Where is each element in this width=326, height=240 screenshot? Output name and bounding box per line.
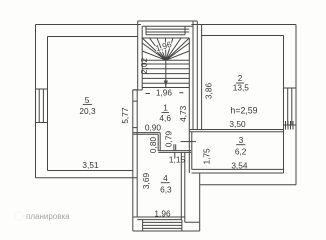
stair direction divider (165, 60, 167, 87)
closet top wall (133, 133, 160, 135)
wall hatch right of room3 (286, 121, 294, 130)
dimension dashes beside 1,96 (146, 92, 184, 95)
wall room5 bottom (36, 171, 138, 178)
svg-text:4: 4 (163, 173, 168, 183)
stair landing (142, 26, 193, 35)
svg-text:4,6: 4,6 (159, 113, 171, 123)
svg-text:0,80: 0,80 (148, 137, 158, 154)
svg-text:0,79: 0,79 (163, 131, 173, 148)
outer wall right room2 (284, 25, 297, 185)
svg-text:1,96: 1,96 (154, 209, 171, 219)
stair block top (138, 20, 198, 22)
stair steps (142, 64, 189, 83)
watermark (15, 212, 71, 222)
svg-text:5: 5 (85, 95, 90, 105)
wall room3 bottom (192, 169, 284, 173)
outer wall bottom right (200, 184, 296, 186)
closet right wall (158, 133, 160, 151)
svg-text:3,50: 3,50 (229, 119, 246, 129)
svg-text:1,96: 1,96 (156, 87, 173, 97)
wall room4 right (181, 152, 185, 222)
svg-text:13,5: 13,5 (233, 83, 250, 93)
door jamb room4 (174, 144, 176, 158)
porch steps (133, 220, 200, 231)
door ticks room5 wall (133, 90, 137, 128)
wall column left (133, 21, 142, 231)
window right (284, 88, 297, 125)
svg-text:1,15: 1,15 (169, 155, 186, 165)
svg-text:3,54: 3,54 (231, 161, 248, 171)
svg-text:h=2,59: h=2,59 (230, 106, 257, 116)
svg-text:6,3: 6,3 (160, 184, 172, 194)
wall room4 bottom (133, 217, 185, 220)
window left (36, 89, 48, 123)
outer wall step below room3 (185, 173, 200, 222)
svg-text:1: 1 (163, 103, 168, 113)
outer wall top (36, 25, 297, 37)
stair winder fan (142, 38, 189, 60)
svg-text:5,77: 5,77 (120, 107, 130, 124)
svg-text:планировка: планировка (26, 212, 70, 221)
wall rooms2/3 (189, 130, 283, 132)
svg-text:3: 3 (239, 135, 244, 145)
svg-text:2,02: 2,02 (139, 58, 149, 75)
svg-text:3,86: 3,86 (204, 83, 214, 100)
wall column right / room2 left (189, 21, 201, 130)
outer wall left room5 (36, 25, 48, 178)
svg-text:4,73: 4,73 (178, 105, 188, 122)
svg-text:3,69: 3,69 (141, 173, 151, 190)
svg-text:1,75: 1,75 (202, 148, 212, 165)
svg-text:0,90: 0,90 (145, 122, 162, 132)
svg-text:20,3: 20,3 (79, 106, 96, 116)
wall room3 left (189, 130, 192, 174)
stair direction arrow (164, 81, 168, 87)
door tick room3 (181, 141, 197, 143)
stair box (142, 38, 189, 88)
svg-text:6,2: 6,2 (235, 146, 247, 156)
svg-text:3,51: 3,51 (82, 160, 99, 170)
wall hall/room4 (158, 151, 191, 153)
